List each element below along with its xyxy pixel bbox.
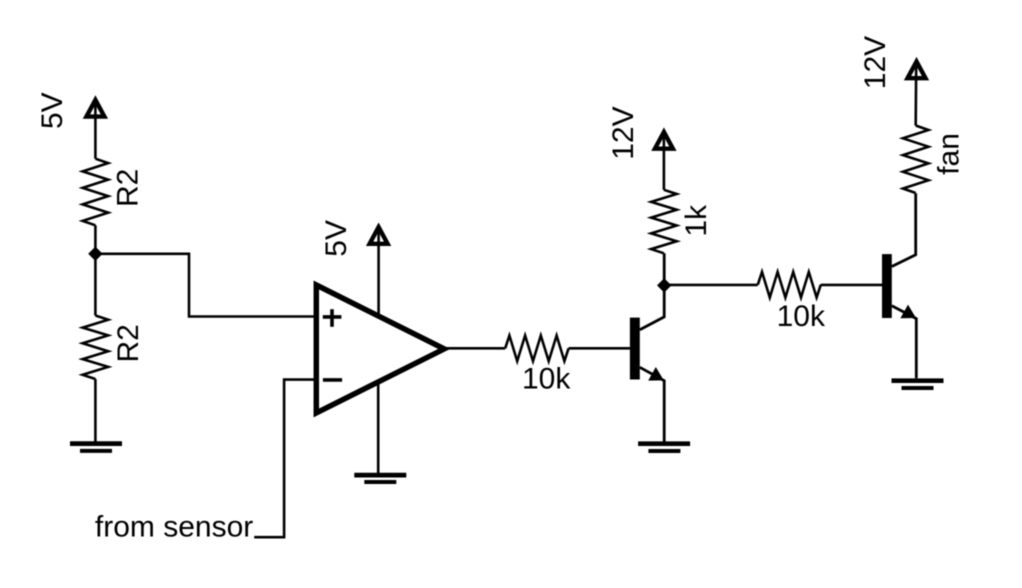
svg-text:R2: R2 — [112, 169, 145, 207]
svg-text:12V: 12V — [859, 36, 892, 89]
svg-text:5V: 5V — [36, 92, 69, 129]
svg-text:1k: 1k — [680, 204, 713, 237]
svg-text:R2: R2 — [112, 324, 145, 362]
svg-text:5V: 5V — [320, 220, 353, 257]
svg-text:fan: fan — [932, 133, 965, 175]
svg-text:10k: 10k — [522, 363, 571, 396]
svg-text:from sensor: from sensor — [95, 510, 253, 543]
svg-text:10k: 10k — [777, 300, 826, 333]
svg-text:12V: 12V — [607, 106, 640, 159]
